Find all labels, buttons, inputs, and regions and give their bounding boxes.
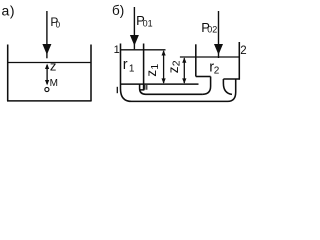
level line 2 xyxy=(180,56,239,58)
z double arrow shaft xyxy=(46,65,48,84)
svg-text:z: z xyxy=(144,70,159,77)
z1 head down xyxy=(162,78,166,83)
tank bottom xyxy=(7,100,92,102)
svg-text:2: 2 xyxy=(240,45,246,57)
label z2 rotated xyxy=(166,60,183,73)
pipe bottom wall xyxy=(132,79,236,101)
arrow P01 shaft xyxy=(133,7,135,49)
liquid surface line xyxy=(8,62,91,64)
riser left wall into vessel2 xyxy=(203,77,211,95)
svg-text:0: 0 xyxy=(56,20,61,29)
arrow P02 head xyxy=(214,44,223,55)
svg-text:1: 1 xyxy=(149,64,161,70)
svg-text:M: M xyxy=(50,78,58,89)
label z1 rotated xyxy=(144,64,161,77)
svg-text:2: 2 xyxy=(171,60,183,66)
z1 head up xyxy=(162,50,166,55)
svg-text:r: r xyxy=(123,57,128,73)
svg-text:z: z xyxy=(50,59,57,74)
label II strokes xyxy=(145,85,147,90)
z1 dimension shaft xyxy=(163,51,165,83)
z2 head up xyxy=(182,57,186,62)
svg-text:01: 01 xyxy=(143,18,153,28)
svg-text:1: 1 xyxy=(114,44,120,56)
vessel1 left wall with lower bend into pipe xyxy=(121,44,132,102)
svg-text:а): а) xyxy=(2,3,16,19)
label I stroke xyxy=(116,87,118,93)
svg-text:1: 1 xyxy=(129,64,135,75)
point M circle xyxy=(45,87,49,91)
tank left wall xyxy=(7,45,9,102)
svg-text:z: z xyxy=(166,66,181,73)
bottom datum line 0-0 xyxy=(120,83,199,85)
z2 dimension shaft xyxy=(183,58,185,83)
z arrow down head xyxy=(45,80,49,85)
svg-text:02: 02 xyxy=(207,25,217,35)
vessel2 floor left segment xyxy=(196,76,211,78)
vessel2 right wall xyxy=(238,42,240,80)
vessel2 left wall xyxy=(195,44,197,76)
riser right wall curve xyxy=(223,79,232,94)
pipe top wall left bend xyxy=(140,84,203,94)
arrow P0 shaft xyxy=(46,11,48,58)
svg-text:б): б) xyxy=(112,3,124,18)
svg-text:2: 2 xyxy=(214,65,220,76)
vessel2 floor right segment xyxy=(223,78,240,80)
arrow P0 head xyxy=(42,44,51,55)
level line 1 xyxy=(121,49,166,51)
tank right wall xyxy=(90,45,92,102)
arrow P02 shaft xyxy=(218,11,220,58)
stub below vessel1 bottom xyxy=(140,84,144,90)
z2 head down xyxy=(182,78,186,83)
z arrow up head xyxy=(45,64,49,69)
vessel1 right wall xyxy=(143,44,145,85)
arrow P01 head xyxy=(130,35,139,46)
